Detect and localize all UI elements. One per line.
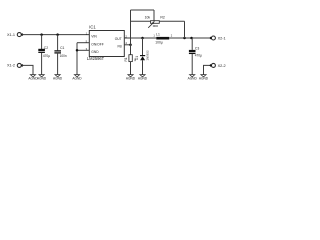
- connector X1-2 pin dot: [21, 64, 24, 67]
- svg-text:L1: L1: [156, 32, 160, 36]
- svg-text:C3: C3: [195, 46, 199, 50]
- resistor R1 body: [129, 55, 132, 62]
- svg-text:GND: GND: [91, 50, 99, 54]
- potentiometer R2 body: [151, 21, 160, 24]
- capacitor C2 body: [38, 49, 45, 53]
- wire GND pin: [77, 49, 89, 51]
- svg-text:1: 1: [153, 34, 155, 38]
- node junction C3 branch: [190, 37, 193, 40]
- svg-text:100µ: 100µ: [155, 40, 163, 44]
- ground AGND under D1: [138, 75, 148, 81]
- svg-text:AGND: AGND: [138, 77, 148, 81]
- connector X2-1 circle: [211, 36, 215, 40]
- svg-text:VIN: VIN: [91, 35, 97, 39]
- connector X2-2 circle: [211, 63, 215, 67]
- svg-text:FB: FB: [117, 45, 122, 49]
- wire R1 branch upper: [130, 45, 132, 55]
- potentiometer R2 wiper arrow: [148, 22, 154, 28]
- connector X1-2 circle: [17, 63, 21, 67]
- svg-text:C1: C1: [60, 46, 64, 50]
- wire IC ground vertical: [76, 43, 78, 75]
- svg-text:AGND: AGND: [53, 77, 63, 81]
- ground AGND under C3: [188, 75, 198, 81]
- svg-text:ON/OFF: ON/OFF: [91, 43, 103, 47]
- svg-text:X2-2: X2-2: [218, 64, 226, 68]
- svg-text:AGND: AGND: [199, 77, 209, 81]
- wire rail to trimmer left terminal: [131, 20, 151, 22]
- wire L1 to X2-1: [169, 37, 211, 39]
- node junction diode branch: [141, 37, 144, 40]
- wire X1-2 to ground: [22, 65, 33, 74]
- svg-text:IC1: IC1: [89, 24, 96, 29]
- svg-text:AGND: AGND: [188, 77, 198, 81]
- potentiometer R2 trim arrow: [152, 25, 158, 27]
- wire C2 branch lower: [41, 53, 43, 75]
- wire FB pin: [124, 44, 131, 46]
- node junction C2 on input rail: [40, 33, 43, 36]
- node junction FB: [129, 44, 132, 47]
- wire wiper vertical: [153, 10, 155, 22]
- wire trimmer right terminal: [159, 20, 184, 22]
- wire OUT pin to L1: [124, 37, 156, 39]
- svg-text:X1-1: X1-1: [7, 33, 15, 37]
- wire C1 branch upper: [57, 35, 59, 51]
- connector X2-2 pin dot: [209, 64, 212, 67]
- wire R1 branch lower: [130, 62, 132, 75]
- ground AGND under C1: [53, 75, 63, 81]
- svg-text:D1: D1: [135, 56, 139, 60]
- ground AGND under X1-2: [28, 75, 38, 81]
- wire feedback left vertical: [130, 10, 132, 45]
- svg-text:470µ: 470µ: [43, 54, 50, 58]
- svg-text:AGND: AGND: [37, 77, 47, 81]
- diode D1 triangle: [140, 56, 145, 60]
- svg-text:470µ: 470µ: [195, 54, 202, 58]
- svg-text:R2: R2: [160, 15, 165, 19]
- op-amp-style IC U1 box (regulator IC1): [89, 31, 124, 57]
- svg-text:LM2596T: LM2596T: [87, 56, 105, 61]
- wire R2 right vertical: [184, 21, 186, 38]
- capacitor C1 plates: [54, 51, 61, 53]
- svg-text:AGND: AGND: [126, 77, 136, 81]
- wire C3 branch lower: [191, 54, 193, 75]
- diode D1 cathode bar: [140, 55, 145, 57]
- svg-text:R1: R1: [124, 57, 128, 61]
- ground AGND under X2-2: [199, 75, 209, 81]
- inductor L1 body: [156, 37, 169, 40]
- capacitor C3 body: [189, 50, 196, 54]
- svg-text:AGND: AGND: [72, 77, 82, 81]
- node junction C1 on input rail: [56, 33, 59, 36]
- ground AGND under IC: [72, 75, 82, 81]
- svg-text:2: 2: [171, 34, 173, 38]
- svg-text:100n: 100n: [60, 54, 67, 58]
- ground AGND under R1: [126, 75, 136, 81]
- svg-text:X1-2: X1-2: [7, 64, 15, 68]
- node junction GND/ONOFF: [76, 49, 79, 52]
- svg-text:1N5822: 1N5822: [146, 50, 150, 61]
- wire C1 branch lower: [57, 53, 59, 75]
- svg-text:C2: C2: [44, 46, 48, 50]
- wire C3 branch upper: [191, 38, 193, 50]
- svg-text:AGND: AGND: [28, 77, 38, 81]
- wire D1 branch upper: [142, 38, 144, 55]
- wire ON/OFF pin: [77, 42, 89, 44]
- svg-text:10k: 10k: [145, 15, 151, 19]
- connector X1-1 circle: [17, 33, 21, 37]
- wire D1 branch lower: [142, 60, 144, 74]
- wire C2 branch upper: [41, 35, 43, 49]
- wire feedback top rail: [131, 9, 155, 11]
- node junction R2 return: [183, 37, 186, 40]
- wire input rail X1-1 to VIN: [22, 34, 89, 36]
- ground AGND under C2: [37, 75, 47, 81]
- wire X2-2 to ground: [204, 65, 211, 74]
- connector X2-1 pin dot: [209, 37, 212, 40]
- connector X1-1 pin dot: [21, 33, 24, 36]
- svg-text:OUT: OUT: [115, 37, 122, 41]
- svg-text:X2-1: X2-1: [218, 36, 226, 40]
